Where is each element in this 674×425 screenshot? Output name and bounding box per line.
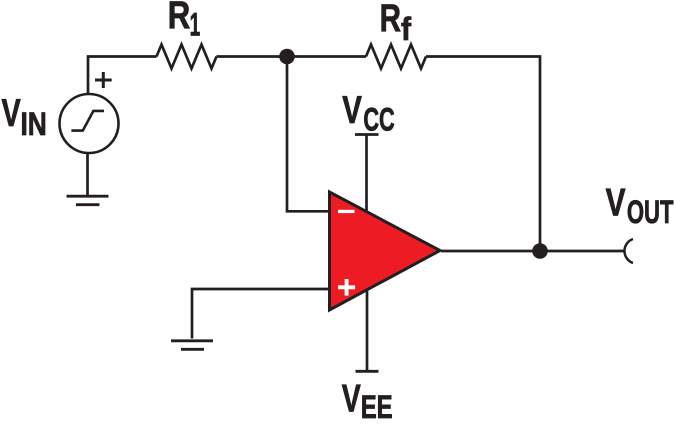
wire from node A down to inverting input: [287, 57, 331, 212]
op-amp non-inverting input plus sign: [338, 279, 355, 296]
svg-text:IN: IN: [20, 107, 46, 143]
svg-text:EE: EE: [361, 390, 393, 420]
resistor Rf: [366, 45, 426, 69]
output terminal arc: [624, 239, 633, 263]
svg-text:R: R: [380, 0, 402, 40]
ground under source: [67, 196, 109, 205]
label Rf: [380, 0, 412, 47]
wire top from source riser to R1: [88, 57, 157, 95]
label VCC: [342, 89, 395, 137]
wire op-amp to VEE supply: [366, 290, 369, 371]
svg-text:OUT: OUT: [627, 194, 674, 230]
wire from node A to Rf: [287, 55, 367, 58]
wire from ground to non-inverting input: [192, 289, 331, 339]
VCC supply bar: [355, 133, 379, 136]
svg-text:V: V: [342, 377, 361, 420]
label VIN: [1, 92, 46, 143]
feedback wire from Rf to output node: [426, 57, 540, 252]
voltage source VIN circle: [60, 94, 119, 153]
label VOUT: [606, 182, 674, 230]
VEE supply bar: [356, 370, 379, 373]
svg-text:1: 1: [190, 6, 201, 43]
svg-text:V: V: [606, 182, 626, 224]
label VEE: [342, 377, 393, 425]
ground at non-inverting input: [171, 341, 213, 350]
wire op-amp output to terminal: [441, 250, 625, 253]
svg-text:CC: CC: [363, 101, 394, 137]
resistor R1: [157, 45, 217, 69]
svg-text:R: R: [168, 0, 191, 37]
voltage source waveform: [71, 111, 104, 131]
label R1: [168, 0, 201, 43]
wire from R1 to node A: [217, 55, 287, 58]
svg-text:V: V: [342, 89, 362, 132]
op-amp inverting input minus sign: [338, 210, 355, 213]
wire from source to ground: [86, 152, 89, 195]
wire VCC supply to op-amp: [365, 135, 368, 215]
op-amp U1: [330, 192, 441, 310]
node A junction dot: [279, 49, 295, 65]
svg-text:f: f: [401, 11, 412, 47]
voltage source plus polarity sign: [95, 72, 112, 88]
svg-text:V: V: [1, 92, 20, 135]
output node junction dot: [532, 243, 548, 259]
